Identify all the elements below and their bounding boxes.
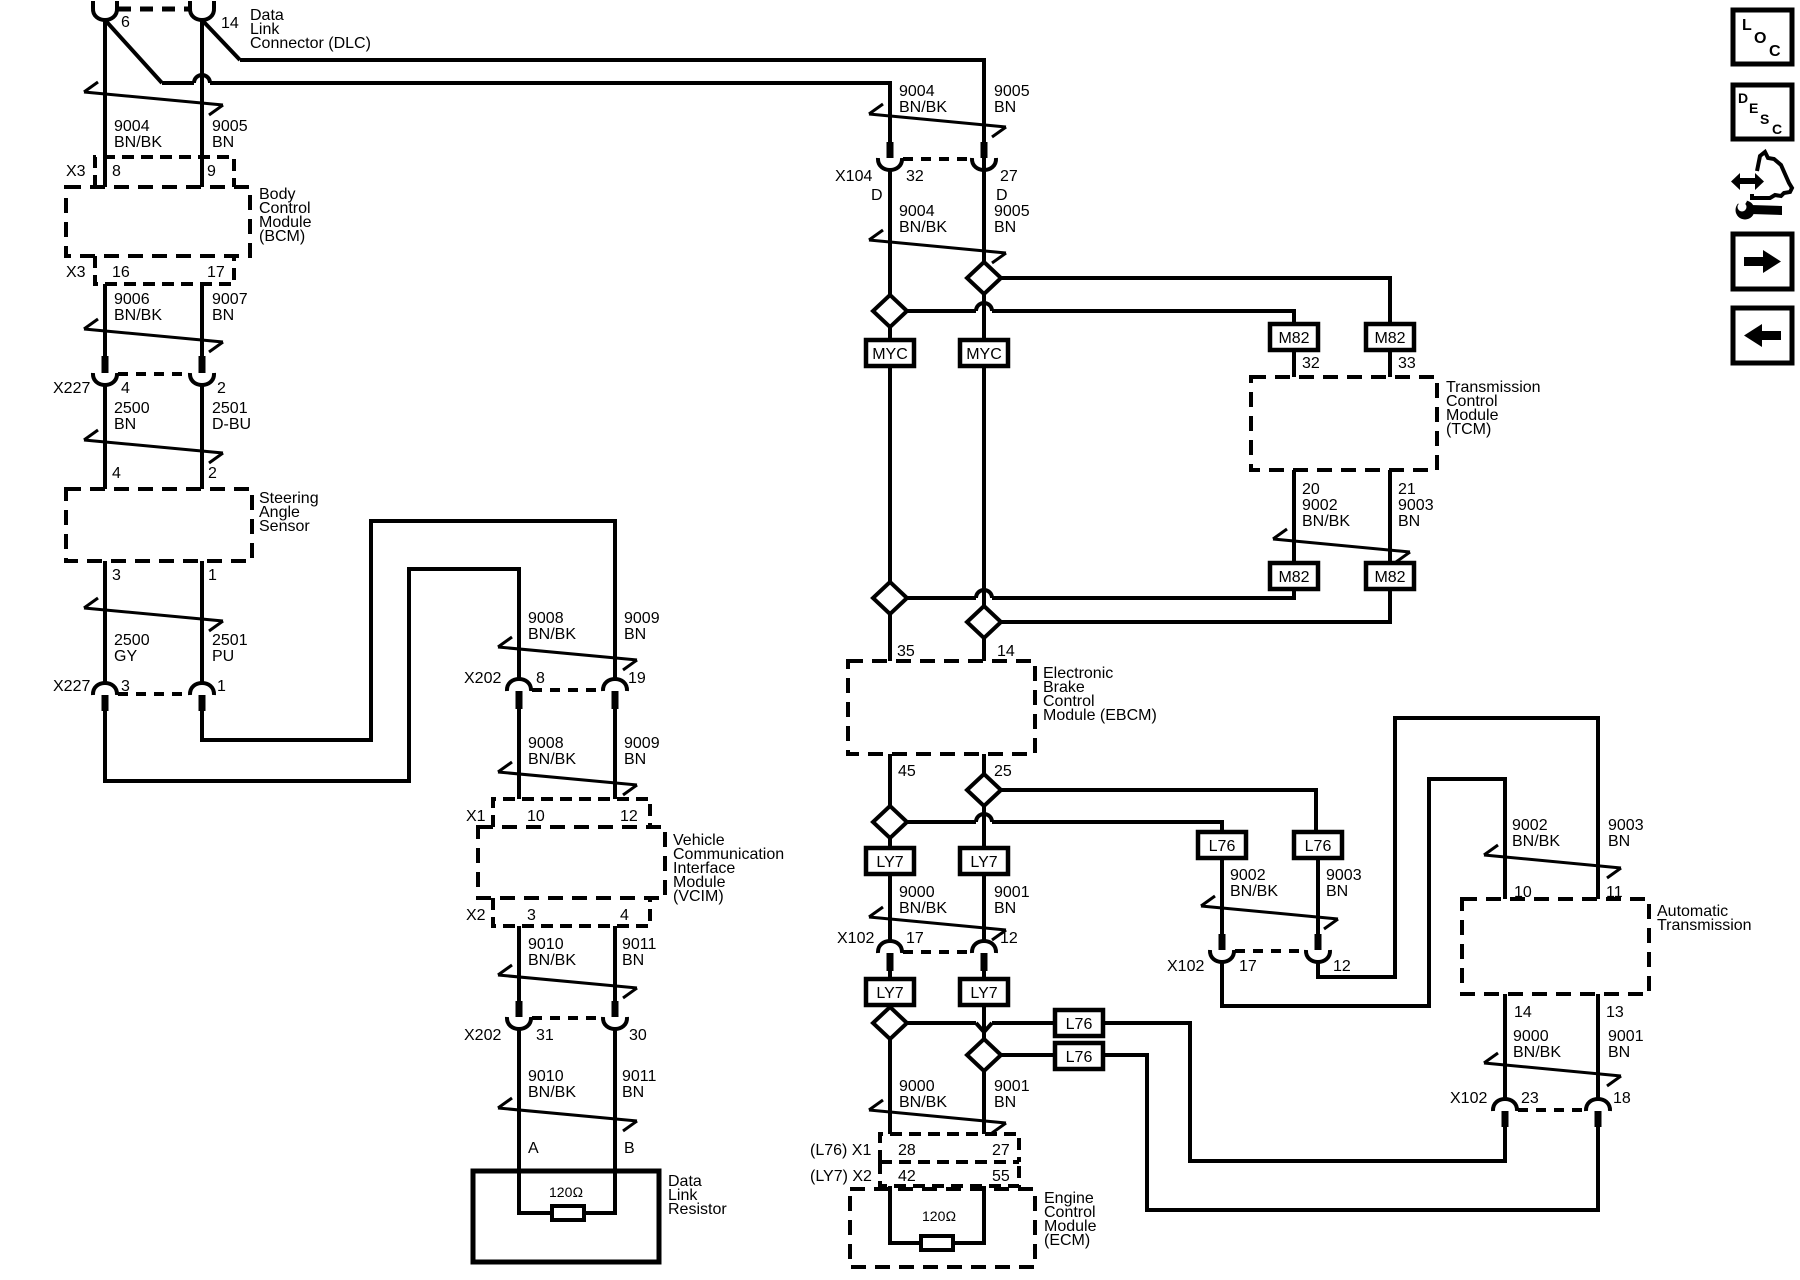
inline connector M82 (TCM 33) <box>1366 324 1414 350</box>
resistor 120 ohm (data link) <box>552 1206 584 1220</box>
svg-text:12: 12 <box>1333 958 1351 975</box>
splice S6 on 9001 BN <box>967 774 1001 806</box>
splice S7 on 9000 BN/BK <box>873 1007 907 1039</box>
connector X104 pin 32 male tick <box>887 142 894 158</box>
wire 9005 BN splice to MYC <box>982 294 986 340</box>
svg-text:1: 1 <box>208 567 217 584</box>
svg-text:18: 18 <box>1613 1090 1631 1107</box>
svg-text:X3: X3 <box>66 163 86 180</box>
svg-text:3: 3 <box>112 567 121 584</box>
svg-text:12: 12 <box>620 808 638 825</box>
inline connector L76 (9002) <box>1198 832 1246 858</box>
wire 2500 GY from sensor 3 <box>103 561 107 683</box>
icon forward arrow box <box>1733 234 1792 289</box>
connector X102 pin 18 male tick <box>1595 1111 1602 1127</box>
module VCIM box <box>478 827 665 898</box>
wire 9001 BN from EBCM 25 <box>982 754 986 774</box>
svg-text:E: E <box>1749 100 1758 116</box>
twisted pair marker above X202 31/30 <box>498 975 637 988</box>
svg-text:(LY7) X2: (LY7) X2 <box>810 1168 872 1185</box>
connector DLC pin 14 (female cup) <box>190 1 214 20</box>
splice S8 on 9001 BN <box>967 1039 1001 1071</box>
svg-text:32: 32 <box>1302 355 1320 372</box>
svg-text:4: 4 <box>121 380 130 397</box>
twisted pair marker DLC wires <box>84 92 223 105</box>
svg-text:17: 17 <box>1239 958 1257 975</box>
inline connector M82 (TCM 32) <box>1270 324 1318 350</box>
connector X227 dashed body <box>118 372 189 376</box>
svg-text:120Ω: 120Ω <box>549 1184 583 1200</box>
svg-text:X202: X202 <box>464 670 501 687</box>
svg-text:X102: X102 <box>1450 1090 1487 1107</box>
svg-text:A: A <box>528 1140 539 1157</box>
svg-text:L76: L76 <box>1305 838 1332 855</box>
svg-text:3: 3 <box>121 678 130 695</box>
svg-text:3: 3 <box>527 907 536 924</box>
svg-text:L76: L76 <box>1066 1016 1093 1033</box>
wire 9000 BN/BK splice to ECM <box>888 1039 892 1134</box>
wire 9005 horizontal run to center, down to splice <box>240 60 984 262</box>
connector X202 pin 19 male tick <box>612 691 619 709</box>
resistor 120 ohm (ECM) <box>921 1236 953 1250</box>
twisted pair marker BCM to X227 <box>84 329 223 342</box>
wire 9004 BN/BK to EBCM 35 <box>888 614 892 661</box>
connector X102 pin 18 female cup <box>1586 1099 1610 1111</box>
icon back arrow box <box>1733 308 1792 363</box>
svg-text:9: 9 <box>207 163 216 180</box>
wire hop over 9001 vertical <box>976 814 992 822</box>
inline connector MYC (left) <box>866 340 914 366</box>
icon LOC box <box>1733 10 1792 64</box>
connector X202 pin 31 female cup <box>507 1017 531 1029</box>
wire 9004 horizontal run to center <box>162 81 194 85</box>
wire X102 to LY7 (left lower) <box>888 971 892 979</box>
wire 9002 BN/BK route to transmission 10 <box>1222 779 1505 1006</box>
twisted pair marker above X102 23/18 <box>1484 1063 1621 1076</box>
svg-text:30: 30 <box>629 1027 647 1044</box>
wire 9011 BN to data link resistor <box>582 1029 615 1213</box>
svg-text:D: D <box>871 187 883 204</box>
connector X102 dashed body (right 17/12) <box>1235 949 1305 953</box>
wire M82 to TCM 32 <box>1292 350 1296 377</box>
wire 9004 horizontal run continued, down to X104 <box>210 83 890 142</box>
svg-text:O: O <box>1754 30 1766 47</box>
wire 9006 BN/BK from BCM 16 <box>103 284 107 356</box>
svg-text:X104: X104 <box>835 168 872 185</box>
connector X202 pin 8 female cup <box>507 679 531 691</box>
wire 9003 BN from TCM 21 <box>1388 470 1392 563</box>
svg-text:L: L <box>1742 17 1752 34</box>
svg-text:35: 35 <box>897 643 915 660</box>
connector X202 pin 8 male tick <box>516 691 523 709</box>
wire hop over 9005 vertical <box>194 75 210 83</box>
svg-text:2: 2 <box>217 380 226 397</box>
svg-text:120Ω: 120Ω <box>922 1208 956 1224</box>
svg-text:D: D <box>996 187 1008 204</box>
svg-text:14: 14 <box>221 15 239 32</box>
svg-text:S: S <box>1760 111 1769 127</box>
splice S1 on 9004 BN/BK <box>873 295 907 327</box>
svg-text:14: 14 <box>1514 1004 1532 1021</box>
connector X102 pin 12 male tick (right) <box>1315 934 1322 950</box>
wire 9000 BN/BK LY7 to X102 <box>888 874 892 941</box>
svg-text:M82: M82 <box>1374 569 1405 586</box>
inline connector LY7 (right lower) <box>960 979 1008 1005</box>
svg-text:14: 14 <box>997 643 1015 660</box>
icon car outline with double arrow and wrench <box>1752 152 1792 198</box>
splice S2 on 9005 BN <box>967 262 1001 294</box>
twisted pair marker above X104 <box>869 114 1006 127</box>
svg-text:EngineControlModule(ECM): EngineControlModule(ECM) <box>1044 1190 1097 1249</box>
inline connector M82 (TCM 21) <box>1366 563 1414 589</box>
svg-text:LY7: LY7 <box>876 854 903 871</box>
inline connector LY7 (right upper) <box>960 848 1008 874</box>
svg-text:45: 45 <box>898 763 916 780</box>
twisted pair marker sensor to X227 <box>84 608 223 621</box>
connector X202 pin 31 male tick <box>516 1001 523 1017</box>
svg-text:27: 27 <box>992 1142 1010 1159</box>
module Automatic Transmission box <box>1462 899 1649 994</box>
svg-text:12: 12 <box>1000 930 1018 947</box>
svg-text:C: C <box>1769 43 1781 60</box>
wire 9010 BN/BK from VCIM X2-3 <box>517 926 521 1001</box>
connector row X3 (BCM top) <box>95 157 234 187</box>
svg-text:25: 25 <box>994 763 1012 780</box>
connector X227 pin 4 male tick <box>102 356 109 373</box>
svg-text:M82: M82 <box>1374 330 1405 347</box>
twisted pair marker below TCM <box>1273 539 1410 552</box>
svg-text:4: 4 <box>112 465 121 482</box>
svg-text:X202: X202 <box>464 1027 501 1044</box>
connector X102 pin 12 female cup (right) <box>1306 950 1330 962</box>
svg-text:23: 23 <box>1521 1090 1539 1107</box>
wire 9000 BN/BK L76 route to X102 23 <box>1103 1023 1505 1161</box>
svg-text:M82: M82 <box>1278 569 1309 586</box>
svg-text:L76: L76 <box>1066 1049 1093 1066</box>
connector DLC pin 6 (female cup) <box>93 1 117 20</box>
svg-text:31: 31 <box>536 1027 554 1044</box>
svg-text:X1: X1 <box>466 808 486 825</box>
connector X102 pin 17 female cup (right) <box>1210 950 1234 962</box>
wire M82 to TCM 33 <box>1388 350 1392 377</box>
connector X227 pin 3 female cup <box>93 683 117 695</box>
twisted pair marker above transmission <box>1484 855 1621 868</box>
svg-text:X227: X227 <box>53 678 90 695</box>
wire 2501 PU from sensor 1 <box>200 561 204 683</box>
svg-text:10: 10 <box>527 808 545 825</box>
svg-text:LY7: LY7 <box>970 985 997 1002</box>
svg-text:8: 8 <box>536 670 545 687</box>
wire 2500 BN to steering sensor <box>103 385 107 489</box>
svg-text:6: 6 <box>121 14 130 31</box>
svg-text:D: D <box>1738 90 1748 106</box>
module TCM box <box>1251 377 1437 470</box>
wire 9004 BN/BK MYC to splice S3 <box>888 366 892 582</box>
wire 9010 BN/BK to data link resistor <box>519 1029 554 1213</box>
wire 9004 BN/BK from DLC 6 to BCM <box>103 20 107 187</box>
connector row X1 (ECM) <box>880 1134 1019 1162</box>
wire 9011 BN from VCIM X2-4 <box>613 926 617 1001</box>
connector X104 pin 32 female cup <box>878 158 902 170</box>
svg-text:X3: X3 <box>66 264 86 281</box>
connector X104 pin 27 female cup <box>972 158 996 170</box>
twisted pair marker X227 to sensor <box>84 440 223 453</box>
wire 9001 BN from trans 13 <box>1596 994 1600 1099</box>
wire 9004 BN/BK to M82 (TCM 32) part 1 <box>907 309 976 313</box>
connector X102 pin 12 female cup <box>972 941 996 953</box>
connector X102 pin 23 male tick <box>1502 1111 1509 1127</box>
module Data Link Resistor box <box>473 1171 659 1262</box>
svg-text:2501D-BU: 2501D-BU <box>212 400 251 433</box>
svg-text:16: 16 <box>112 264 130 281</box>
module ECM box <box>850 1189 1035 1267</box>
connector X227 pin 1 female cup <box>190 683 214 695</box>
connector X227 pin 4 female cup <box>93 373 117 385</box>
connector X102 pin 17 female cup <box>878 941 902 953</box>
wire 9001 BN LY7 to X102 <box>982 874 986 941</box>
inline connector L76 (to X102 23) <box>1055 1010 1103 1036</box>
svg-text:28: 28 <box>898 1142 916 1159</box>
twisted pair marker above VCIM <box>498 772 637 785</box>
svg-text:LY7: LY7 <box>970 854 997 871</box>
module Steering Angle Sensor box <box>66 489 252 561</box>
connector X202 pin 30 female cup <box>603 1017 627 1029</box>
wire 9009 BN to VCIM X1 <box>613 709 617 799</box>
svg-text:20: 20 <box>1302 481 1320 498</box>
svg-text:4: 4 <box>620 907 629 924</box>
connector X102 dashed body (17/12) <box>903 950 971 954</box>
svg-text:X102: X102 <box>1167 958 1204 975</box>
connector X227 pin 3 male tick <box>102 695 109 711</box>
connector row X1 (VCIM top) <box>493 799 650 827</box>
twisted pair marker above resistor <box>498 1108 637 1121</box>
wire 9003 BN L76 to X102 <box>1316 858 1320 934</box>
wire 9005 branch diagonal from DLC pin 14 <box>202 20 240 60</box>
connector X104 dashed body <box>903 157 971 161</box>
splice S3 on 9004 BN/BK <box>873 582 907 614</box>
svg-text:19: 19 <box>628 670 646 687</box>
connector row X2 (VCIM bottom) <box>493 898 650 926</box>
wire 9008 route sensor side to VCIM column <box>105 569 519 781</box>
wire 9005 BN to EBCM 14 <box>982 638 986 661</box>
connector X102 dashed body (23/18) <box>1518 1108 1585 1112</box>
svg-text:1: 1 <box>217 678 226 695</box>
wire LY7 to splice S8 <box>982 1005 986 1039</box>
twisted pair marker below X104 <box>869 240 1006 253</box>
icon DESC box <box>1733 85 1792 139</box>
inline connector L76 (9003) <box>1294 832 1342 858</box>
wire 9004 BN/BK to M82 (TCM 32) part 2 <box>992 311 1294 324</box>
connector X202 pin 30 male tick <box>612 1001 619 1017</box>
module EBCM box <box>848 661 1035 754</box>
svg-text:2: 2 <box>208 465 217 482</box>
wire 9002 BN/BK L76 to X102 <box>1220 858 1224 934</box>
connector X227 pin 1 male tick <box>199 695 206 711</box>
connector DLC dashed body <box>118 7 189 12</box>
svg-text:X2: X2 <box>466 907 486 924</box>
connector X202 dashed body (31/30) <box>532 1016 602 1020</box>
module BCM box <box>66 187 250 256</box>
wire 9000 BN/BK splice to L76 part 2 <box>992 1021 1055 1025</box>
inline connector LY7 (left lower) <box>866 979 914 1005</box>
wire to ECM resistor (left) <box>890 1186 921 1243</box>
twisted pair marker above ECM <box>869 1110 1006 1123</box>
splice S4 on 9005 BN <box>967 606 1001 638</box>
svg-text:21: 21 <box>1398 481 1416 498</box>
wire 9002 BN/BK M82 to splice S3 part 2 <box>907 596 976 600</box>
wire 9004 BN/BK splice to MYC <box>888 327 892 340</box>
svg-text:M82: M82 <box>1278 330 1309 347</box>
svg-text:X227: X227 <box>53 380 90 397</box>
wire 9004 branch diagonal from DLC pin 6 <box>105 20 162 83</box>
svg-text:LY7: LY7 <box>876 985 903 1002</box>
wire 9005 BN from DLC 14 to BCM <box>200 20 204 187</box>
wire 9003 BN M82 to splice S4 <box>1001 589 1390 622</box>
wire 9009 route sensor side to VCIM column <box>202 521 615 740</box>
wire hop over 9005 vertical <box>976 303 992 311</box>
svg-text:(L76) X1: (L76) X1 <box>810 1142 871 1159</box>
connector X102 pin 23 female cup <box>1493 1099 1517 1111</box>
inline connector MYC (right) <box>960 340 1008 366</box>
wire 9000 BN/BK from trans 14 <box>1503 994 1507 1099</box>
inline connector M82 (TCM 20) <box>1270 563 1318 589</box>
wire 9000 BN/BK splice to L76 part 1 <box>907 1021 976 1025</box>
svg-text:13: 13 <box>1606 1004 1624 1021</box>
connector row X3 (BCM bottom) <box>95 256 234 284</box>
connector X202 pin 19 female cup <box>603 679 627 691</box>
connector X104 pin 27 male tick <box>981 142 988 158</box>
svg-text:42: 42 <box>898 1168 916 1185</box>
connector X102 pin 17 male tick <box>887 953 894 971</box>
wire 9003 BN route to transmission 11 <box>1318 718 1598 977</box>
wire 9005 BN MYC to splice S4 <box>982 366 986 606</box>
svg-text:C: C <box>1772 121 1782 137</box>
svg-text:MYC: MYC <box>872 346 908 363</box>
svg-text:17: 17 <box>906 930 924 947</box>
wire LY7 to splice S7 <box>888 1005 892 1007</box>
wire X102 to LY7 (right lower) <box>982 971 986 979</box>
svg-text:32: 32 <box>906 168 924 185</box>
wire 9000 BN/BK splice to LY7 <box>888 838 892 848</box>
wire 9001 BN splice to L76 (trans 13) <box>1001 790 1316 832</box>
wire 9004 BN/BK X104 to splice <box>888 170 892 295</box>
wire hop under 9001 vertical <box>976 1023 992 1032</box>
wire 9008 BN/BK to VCIM X1 <box>517 709 521 799</box>
wire 9001 BN splice to L76 <box>1001 1053 1055 1057</box>
svg-text:8: 8 <box>112 163 121 180</box>
connector row X2 (ECM) <box>880 1162 1019 1186</box>
connector X227 pin 2 male tick <box>199 356 206 373</box>
svg-text:B: B <box>624 1140 635 1157</box>
twisted pair marker above X102 17/12 <box>869 917 1006 930</box>
inline connector L76 (to X102 18) <box>1055 1043 1103 1069</box>
connector X102 pin 12 male tick <box>981 953 988 971</box>
wire 9000 BN/BK from EBCM 45 <box>888 754 892 806</box>
svg-text:33: 33 <box>1398 355 1416 372</box>
twisted pair marker above X102 17/12 right <box>1201 906 1338 919</box>
wire 9000 BN/BK splice to L76 part 2 <box>992 822 1222 832</box>
wire hop over 9005 vertical <box>976 590 992 598</box>
wire 9007 BN from BCM 17 <box>200 284 204 356</box>
connector X202 dashed body <box>532 688 602 692</box>
svg-text:L76: L76 <box>1209 838 1236 855</box>
wire 9005 BN to M82 (TCM 33) <box>1001 278 1390 324</box>
wire to ECM resistor (right) <box>953 1186 984 1243</box>
splice S5 on 9000 BN/BK <box>873 806 907 838</box>
svg-text:17: 17 <box>207 264 225 281</box>
connector X227 pin 2 female cup <box>190 373 214 385</box>
connector X227 dashed body (bottom) <box>118 692 189 696</box>
wire 9001 BN splice to ECM <box>982 1071 986 1134</box>
wire 9001 BN L76 route to X102 18 <box>1103 1055 1598 1210</box>
wire 9000 BN/BK splice to L76 part 1 <box>907 820 976 824</box>
connector row X1/X2 divider (ECM) <box>880 1160 1019 1164</box>
wire 9002 BN/BK from TCM 20 <box>1292 470 1296 563</box>
svg-text:27: 27 <box>1000 168 1018 185</box>
svg-text:MYC: MYC <box>966 346 1002 363</box>
svg-text:X102: X102 <box>837 930 874 947</box>
twisted pair marker above X202 <box>498 647 637 660</box>
inline connector LY7 (left upper) <box>866 848 914 874</box>
connector X102 pin 17 male tick (right) <box>1219 934 1226 950</box>
svg-text:55: 55 <box>992 1168 1010 1185</box>
wire 9002 BN/BK M82 to splice S3 part 1 <box>992 589 1294 598</box>
wire 2501 D-BU to steering sensor <box>200 385 204 489</box>
wire 9001 BN splice to LY7 <box>982 806 986 848</box>
